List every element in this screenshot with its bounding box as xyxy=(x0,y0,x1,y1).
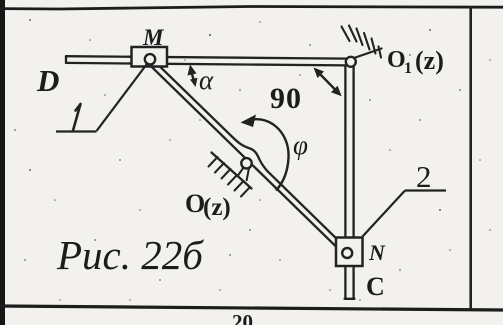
link 1: horizontal rod D-M-O1 (outline with left end cap) xyxy=(66,56,347,58)
pin joint at O(z) xyxy=(241,158,251,168)
leader line of label 2 xyxy=(363,191,406,237)
link 2 lower edge xyxy=(149,64,345,255)
pin joint at O1 xyxy=(346,57,356,67)
leader line of label 1 xyxy=(97,63,149,132)
svg-text:(z): (z) xyxy=(203,194,231,221)
pin joint at N xyxy=(342,248,352,258)
svg-text:N: N xyxy=(368,240,386,265)
underline of label 2 xyxy=(405,189,446,191)
underline of label 1 xyxy=(56,130,97,132)
arrowhead of arc phi xyxy=(241,115,257,128)
svg-text:α: α xyxy=(199,65,214,95)
rotation arc phi around O(z) xyxy=(245,119,289,190)
svg-text:Рис. 22б: Рис. 22б xyxy=(56,232,204,278)
angle alpha arrow at M xyxy=(191,69,195,84)
frame: bottom border line xyxy=(0,306,503,310)
svg-text:D: D xyxy=(36,63,59,98)
slider block N xyxy=(336,238,363,267)
link 2: long diagonal rod M-N, upper edge with hand wiggle at O(z) xyxy=(153,60,349,251)
svg-text:(z): (z) xyxy=(415,46,444,75)
label 1 (hand stroke) xyxy=(73,104,81,131)
svg-text:O: O xyxy=(387,47,406,73)
fixed pivot support O(z): hatched wall baseline xyxy=(212,153,252,189)
svg-text:M: M xyxy=(142,25,165,50)
svg-text:φ: φ xyxy=(293,130,308,160)
slider block M xyxy=(132,47,168,67)
support legs O(z) xyxy=(237,168,244,178)
svg-text:C: C xyxy=(366,272,385,301)
right-angle 90 arrow (double-headed) xyxy=(316,70,339,94)
svg-text:90: 90 xyxy=(270,82,302,115)
pin joint at M xyxy=(145,54,155,64)
frame: left black bar xyxy=(0,0,5,325)
vertical rod lower stub below N with end cap xyxy=(344,266,346,299)
svg-text:1: 1 xyxy=(404,60,412,77)
fixed support O1: hatched wall xyxy=(342,26,382,59)
hatch strokes of support O(z) xyxy=(209,157,251,197)
frame: right border line xyxy=(469,6,472,309)
frame: top border line xyxy=(0,7,503,10)
svg-text:20: 20 xyxy=(232,310,253,325)
svg-text:2: 2 xyxy=(416,159,432,194)
vertical rod O1-N-C (two parallel lines, upper part) xyxy=(344,66,346,239)
